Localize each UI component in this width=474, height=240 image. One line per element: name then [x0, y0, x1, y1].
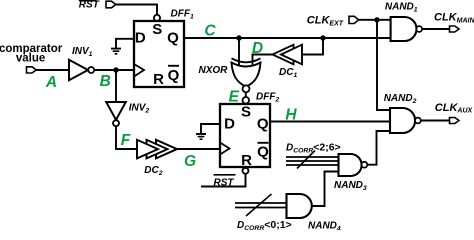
DFF1 S bubble — [154, 15, 160, 21]
output port CLK_MAIN — [434, 12, 474, 33]
svg-text:NAND1: NAND1 — [385, 1, 418, 13]
svg-text:D: D — [224, 116, 235, 133]
xnor gate NXOR — [199, 58, 261, 92]
wire RST to DFF2 R — [201, 174, 246, 187]
svg-text:A: A — [45, 74, 57, 91]
wire C junction to NXOR left input — [238, 38, 240, 66]
wire DC2 to DFF2 clock (node G) — [177, 148, 220, 150]
wire DFF2 Q to NAND2 (node H line) — [270, 121, 390, 123]
inverter INV2 — [106, 102, 149, 126]
delay cell DC2 — [137, 140, 177, 177]
svg-text:Q: Q — [168, 67, 180, 84]
RST label (bottom) — [214, 175, 236, 189]
delay cell DC1 — [273, 45, 303, 79]
svg-text:NAND2: NAND2 — [384, 93, 417, 105]
svg-text:S: S — [241, 103, 251, 120]
bus D_CORR<2;6> — [286, 142, 341, 169]
svg-text:Q: Q — [167, 30, 179, 47]
svg-text:NXOR: NXOR — [199, 65, 229, 76]
node B junction — [113, 67, 118, 72]
svg-text:value: value — [16, 53, 45, 65]
wire DFF1 Q to NAND1 (node C line) — [184, 37, 391, 39]
wire NAND4 to NAND3 bottom input — [312, 172, 338, 207]
flip-flop DFF2 — [220, 91, 279, 169]
wire C line to DC1 input — [302, 38, 323, 55]
junction C line to DC1 — [320, 35, 325, 40]
svg-text:C: C — [204, 22, 216, 39]
junction node C to NXOR — [236, 35, 241, 40]
junction CLK_EXT branch — [374, 17, 379, 22]
wire RST to DFF1 S — [116, 5, 157, 15]
svg-text:NAND3: NAND3 — [334, 180, 367, 192]
and gate NAND4 — [287, 194, 341, 233]
wire INV2 to DC2 (node F) — [116, 126, 137, 149]
wire NXOR output to DFF2 S (node E) — [245, 92, 247, 97]
wire NAND2 to CLK_AUX — [421, 120, 450, 122]
DFF2 S bubble — [243, 97, 250, 104]
input port RST (top) — [79, 0, 116, 10]
svg-text:RST: RST — [79, 0, 100, 10]
nand gate NAND2 — [384, 93, 421, 133]
wire INV1 to DFF1 clock — [94, 69, 134, 71]
svg-text:Q: Q — [257, 116, 269, 133]
wire NAND3 to NAND2 bottom input — [367, 131, 390, 165]
wire DFF1 D to ground — [116, 39, 134, 49]
wire node B down to INV2 — [115, 70, 117, 102]
svg-text:D: D — [252, 40, 263, 57]
wire DFF2 D to ground — [201, 124, 220, 134]
nand gate NAND3 — [334, 154, 367, 192]
input port CLK_EXT — [307, 15, 359, 28]
ground at DFF1 D — [111, 49, 121, 54]
wire NAND1 to CLK_MAIN — [422, 28, 449, 30]
wire comparator value to INV1 — [36, 69, 69, 71]
wire CLK_EXT to NAND1 — [359, 19, 391, 21]
bus D_CORR<0;1> — [235, 194, 292, 232]
svg-text:S: S — [152, 21, 162, 38]
svg-text:RST: RST — [214, 177, 235, 188]
svg-text:NAND4: NAND4 — [308, 221, 341, 231]
svg-text:Q: Q — [257, 143, 269, 160]
svg-text:G: G — [184, 153, 196, 170]
inverter INV1 — [69, 46, 94, 80]
svg-text:R: R — [153, 71, 164, 88]
ground at DFF2 D — [196, 134, 206, 139]
DFF2 R bubble — [243, 168, 249, 174]
wire DC1 output to NXOR right input (node D) — [253, 55, 273, 68]
svg-text:B: B — [100, 73, 111, 90]
input port: comparator value — [0, 43, 63, 73]
svg-text:H: H — [285, 106, 297, 123]
flip-flop DFF1 — [134, 8, 194, 88]
nand gate NAND1 — [385, 1, 422, 41]
wire CLK_EXT branch down to NAND2 top input — [377, 20, 390, 110]
svg-text:F: F — [121, 132, 131, 149]
svg-text:D: D — [135, 30, 146, 47]
svg-text:R: R — [241, 152, 252, 169]
output port CLK_AUX — [435, 102, 474, 124]
